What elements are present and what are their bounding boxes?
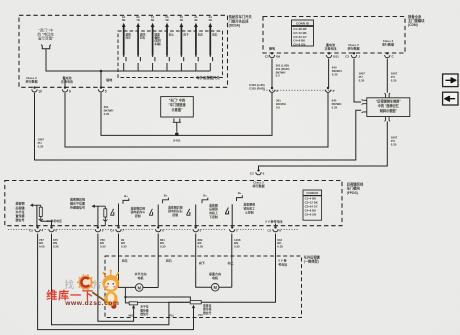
wire 640 battery bus C303 pin4 to DDSA pin 6 — [65, 93, 328, 147]
DDSA driver door switch assembly outer dashed box — [19, 15, 228, 87]
vertical position sensor resistor — [190, 300, 201, 304]
wire CDM pin C to memory callout top tab — [386, 59, 388, 93]
upper-left tab — [362, 99, 367, 104]
wire 640 RD/WH from CDM B11 to C303 — [328, 59, 330, 88]
switch channel 1 output arrow — [122, 23, 126, 27]
CDM pin B9 — [269, 52, 274, 58]
wire 80 mirror common — [119, 234, 136, 288]
FPDS pin 5 — [95, 226, 100, 232]
wire CDM pin J to memory callout upper-left tab — [354, 59, 361, 102]
off-page connector symbol below callout — [41, 45, 51, 49]
wire stub: battery pin 6 — [64, 79, 66, 87]
FPDS connector dotted row — [8, 228, 31, 230]
FPDS pin 1 — [230, 226, 235, 232]
FPDS pin C5-8 — [273, 226, 278, 232]
sensor 2 wiper wire to pin 5 — [97, 206, 99, 226]
switch channel 4 contact — [167, 56, 169, 62]
watermark dzsc.com logo — [46, 270, 119, 309]
drive channel D wire to pin — [231, 204, 233, 226]
FPDS pin 5b — [193, 226, 198, 232]
wire: ground tap down to pin 5 — [100, 71, 102, 87]
motor1 right to wire 861 — [143, 234, 158, 288]
CONN ID table (FPDS) — [303, 190, 322, 195]
sensor 1 wiper arrow — [30, 204, 33, 207]
drive channel D contact — [225, 211, 229, 214]
drive channel A wire to pin — [118, 204, 120, 227]
FPDS pin 6 — [49, 226, 54, 232]
wire 889 to vertical motor — [196, 234, 212, 288]
switch channel 2 contact — [138, 56, 140, 62]
switch channel 5 contact — [181, 56, 183, 62]
wire 361 BK/WH to ground bus + ground bus to DDSA pin 5 — [101, 93, 272, 135]
C303 pin 4 — [325, 87, 330, 93]
switch channel 3 output arrow — [151, 23, 155, 27]
horizontal motor M — [135, 284, 143, 292]
switch channel 5 output arrow — [180, 23, 184, 27]
mirror assembly dashed box — [105, 256, 302, 318]
switch channel 6 output arrow — [194, 23, 198, 27]
lower-left tab — [362, 108, 367, 113]
FPDS pin C2-6 — [256, 169, 261, 175]
CDM pin J — [351, 52, 356, 58]
FPDS passenger door switch module dashed box — [5, 181, 342, 226]
wire 780 to horizontal wiper — [98, 234, 134, 322]
FPDS pin C4-7 — [116, 226, 121, 232]
wire 361 BK/WH from CDM B9 to C303 — [271, 59, 273, 88]
drive channel B wire to pin — [157, 205, 159, 227]
CDM pin B11 — [326, 52, 331, 58]
common branch to sensors — [125, 287, 190, 300]
drive channel B contact — [149, 212, 153, 215]
sensor 1 wiper wire to pin 4 — [36, 205, 38, 226]
drive channel C wire to pin — [195, 205, 197, 227]
vertical motor M — [211, 284, 219, 292]
wire: callout down to switch common bus y=71 — [46, 49, 210, 71]
door latch link reference box — [161, 97, 194, 117]
mirror select switch inner dashed box — [118, 31, 223, 78]
CONN ID table (CDM) — [292, 20, 314, 26]
FPDS pin 6b — [156, 226, 161, 232]
splice S402 — [175, 132, 179, 136]
CDM pin C — [385, 52, 390, 58]
sensor 2 resistor — [104, 209, 107, 217]
5V line threading resistors — [138, 301, 191, 303]
switch channel 3 contact — [153, 56, 155, 62]
FPDS pin 4 — [35, 226, 40, 232]
DDSA pin 5 — [98, 86, 103, 92]
connector C303 row — [264, 89, 337, 91]
sensor 2 wiper arrow — [91, 205, 94, 208]
DDSA pin 6 — [62, 86, 67, 92]
watermark mascot — [92, 292, 114, 307]
5V reference wire stub to pin 8 — [275, 224, 277, 227]
switch channel 1 contact — [124, 56, 126, 62]
drive channel C contact — [186, 212, 190, 215]
junction node at ground tap — [100, 70, 103, 73]
memory mirror tilt reference box — [367, 98, 410, 117]
vertical motor right to wire 1408 — [219, 234, 232, 288]
wire 1807 PU from callout bottom to FPDS pin C2-6 — [259, 121, 388, 170]
horizontal position sensor resistor — [129, 302, 137, 305]
sensor 2 low ref stub — [103, 217, 107, 226]
sensor 1 resistor — [39, 207, 42, 216]
wire 634 5V ref into assembly — [201, 234, 275, 303]
scan grain overlay — [0, 0, 1, 1]
switch channel 2 output arrow — [136, 23, 140, 27]
nav button next (right arrow) — [443, 74, 458, 87]
C303 pin 6 — [269, 87, 274, 93]
switch channel 7 output arrow — [208, 23, 212, 27]
sensor 1 low ref to pin 6 — [39, 217, 43, 221]
switch channel 6 contact — [196, 56, 198, 62]
switch channel 4 output arrow — [165, 23, 169, 27]
DDSA pin 10 — [32, 86, 37, 92]
wire 675 to sensor2 low end — [52, 234, 191, 325]
bottom tab — [385, 117, 390, 122]
drive channel A contact — [110, 212, 114, 215]
switch channel 7 contact — [210, 56, 212, 62]
splice bracket below door callout — [173, 118, 181, 131]
wire 787 to vertical wiper — [38, 234, 194, 330]
top tab — [385, 93, 390, 98]
CDM module dashed box — [263, 17, 405, 54]
wire 1807 PU class 2 bus: DDSA pin10 to memory callout lower tab — [35, 93, 362, 160]
nav button prev (left arrow) — [443, 92, 458, 105]
